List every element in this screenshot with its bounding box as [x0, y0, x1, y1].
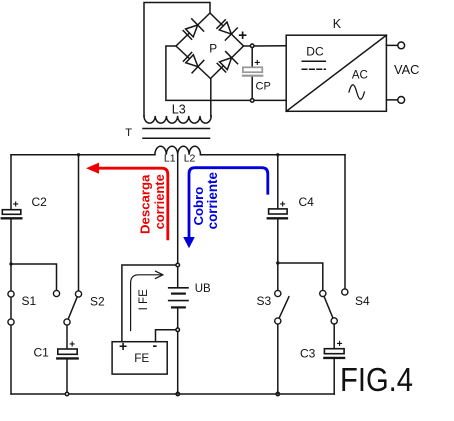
svg-text:+: + — [13, 199, 19, 210]
inductor L3 winding — [144, 116, 211, 123]
transformer core lines — [143, 129, 210, 139]
svg-text:FE: FE — [134, 351, 149, 365]
svg-text:corriente: corriente — [205, 172, 220, 229]
node: CP bottom — [250, 99, 254, 103]
wire: below C3 to bottom rail corner — [333, 359, 335, 394]
svg-text:C1: C1 — [34, 346, 50, 360]
svg-text:L1: L1 — [164, 152, 176, 164]
svg-text:UB: UB — [195, 283, 211, 295]
svg-text:C2: C2 — [32, 195, 48, 209]
wire: bottom rail — [11, 393, 334, 395]
VAC terminal stubs — [386, 45, 397, 100]
wire: S2 branch from top rail — [78, 155, 80, 291]
wire: bridge bottom vertex down to L3 right end — [210, 79, 212, 116]
capacitor CP — [243, 67, 262, 75]
svg-text:Descarga: Descarga — [137, 174, 152, 234]
svg-text:L3: L3 — [172, 102, 186, 116]
switch S4 contact — [342, 289, 348, 295]
svg-text:AC: AC — [352, 69, 368, 81]
capacitor C2 — [2, 210, 22, 219]
switch S1 blade — [10, 297, 12, 318]
switch S1 top contact — [8, 291, 14, 297]
diode D3 bottom-left — [182, 51, 204, 73]
switch S1 bottom contact — [8, 319, 14, 325]
wire: CP branch vertical — [251, 48, 253, 99]
node: bottom rail battery — [176, 392, 179, 395]
VAC terminal bottom circle — [398, 97, 405, 104]
wire: bridge left vertex to negative rail — [166, 46, 286, 100]
arrow red discharge — [95, 168, 168, 240]
svg-text:FIG.4: FIG.4 — [340, 361, 413, 398]
node: FE minus junction — [176, 328, 180, 332]
diode D1 top-left — [181, 19, 203, 41]
svg-text:Cobro: Cobro — [191, 187, 206, 226]
VAC terminal top circle — [398, 42, 405, 49]
switch S3 top contact — [275, 290, 281, 296]
diode D2 top-right — [215, 18, 237, 40]
wire: battery junction down to bottom rail — [177, 332, 179, 394]
diode D4 bottom-right — [215, 52, 237, 74]
wire: top rail left — [11, 154, 155, 156]
wire: center tap — [177, 155, 179, 265]
svg-text:+: + — [337, 339, 343, 350]
wire: branch to right middle contact — [278, 263, 323, 290]
wire: bridge right vertex to K box top input — [244, 45, 287, 47]
switch S2 top contact — [75, 291, 81, 297]
wire: left column below C2 — [10, 220, 12, 291]
svg-text:CP: CP — [256, 81, 271, 93]
node: top rail C4 junction — [276, 153, 279, 156]
svg-text:+: + — [119, 338, 127, 354]
wire: below S3 to bottom rail — [277, 324, 279, 394]
svg-text:corriente: corriente — [152, 174, 167, 229]
svg-text:T: T — [125, 127, 132, 139]
arrow blue charge — [189, 168, 268, 240]
capacitor C3 — [324, 349, 344, 358]
contact: right middle top — [320, 290, 326, 296]
wire: below S2 to C1 — [66, 325, 68, 349]
node: CP top — [250, 44, 254, 48]
svg-text:VAC: VAC — [394, 62, 419, 77]
wire: below C1 to bottom rail — [66, 360, 68, 394]
wire: right column below C4 — [277, 220, 279, 291]
svg-text:P: P — [209, 41, 217, 55]
svg-text:+: + — [238, 27, 247, 44]
wire: bridge top vertex loop to L3 left end — [144, 3, 210, 116]
svg-text:+: + — [254, 58, 260, 69]
svg-text:-: - — [153, 337, 158, 353]
wire: top rail right — [201, 154, 346, 156]
battery UB — [169, 288, 188, 308]
wire: branch to S2 left contact — [11, 264, 57, 290]
svg-text:I FE: I FE — [138, 289, 150, 310]
switch right middle blade — [324, 297, 333, 319]
K diagonal — [286, 35, 386, 111]
wire: below middle contact to C3 — [333, 324, 335, 349]
svg-text:C4: C4 — [299, 195, 315, 209]
svg-text:S3: S3 — [257, 294, 272, 308]
svg-text:+: + — [280, 199, 286, 210]
AC sine symbol — [349, 85, 364, 99]
svg-text:S1: S1 — [22, 294, 37, 308]
bridge rectifier P diamond — [176, 13, 244, 79]
node: junction left branch — [9, 262, 12, 265]
contact: right middle bottom — [331, 318, 337, 324]
switch S2 bottom contact — [64, 319, 70, 325]
wire: battery bottom lead — [177, 309, 179, 329]
switch S3 bottom contact — [275, 318, 281, 324]
arrow I FE — [131, 271, 163, 330]
node: center tap junction — [176, 263, 180, 267]
contact: S2 left throw — [53, 290, 59, 296]
inductor L1 L2 winding — [155, 146, 201, 155]
svg-text:K: K — [333, 17, 342, 31]
node: junction right branch — [276, 261, 279, 264]
capacitor C1 — [57, 349, 77, 358]
switch S2 blade — [68, 297, 77, 319]
svg-text:S4: S4 — [355, 294, 370, 308]
wire: branch to FE minus — [156, 330, 176, 342]
svg-text:+: + — [69, 339, 75, 350]
wire: left column x=11 upper — [10, 155, 12, 210]
DC dashed line — [302, 68, 325, 70]
box FE — [112, 342, 167, 374]
wire: right column x=277.8 upper — [277, 155, 279, 209]
svg-text:L2: L2 — [184, 152, 196, 164]
node: bottom rail C1 — [65, 392, 68, 395]
svg-text:DC: DC — [306, 45, 324, 59]
capacitor C4 — [268, 209, 287, 218]
node: bottom rail S3 — [276, 392, 279, 395]
wire: S4 branch from top rail — [344, 155, 346, 289]
svg-text:S2: S2 — [90, 295, 105, 309]
node: top rail S2 junction — [77, 153, 80, 156]
switch S3 blade (open) — [279, 297, 289, 318]
svg-text:C3: C3 — [300, 347, 316, 361]
converter K box — [286, 35, 386, 111]
DC solid line — [302, 60, 325, 62]
wire: battery top lead — [177, 267, 179, 287]
wire: branch to FE plus — [122, 265, 176, 342]
wire: left column below S1 — [10, 325, 12, 394]
